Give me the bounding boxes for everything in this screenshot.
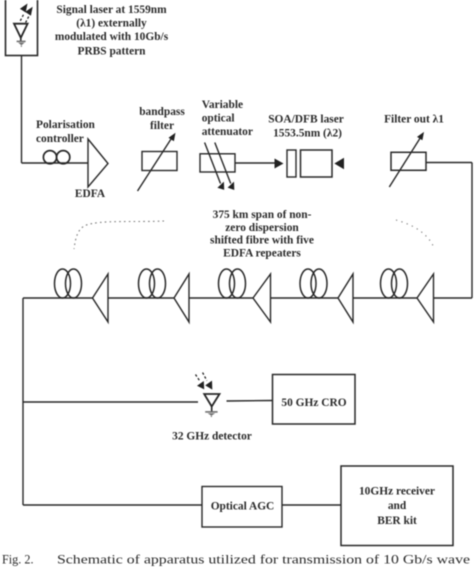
svg-text:Variable: Variable	[202, 99, 243, 111]
svg-text:Fig. 2.: Fig. 2.	[2, 553, 34, 567]
svg-text:375 km span of non-: 375 km span of non-	[213, 209, 312, 221]
svg-text:Schematic of apparatus utilize: Schematic of apparatus utilized for tran…	[57, 553, 470, 567]
svg-text:bandpass: bandpass	[139, 106, 185, 118]
svg-text:Optical AGC: Optical AGC	[211, 501, 275, 513]
svg-text:50 GHz CRO: 50 GHz CRO	[281, 397, 346, 409]
svg-text:32 GHz detector: 32 GHz detector	[172, 431, 252, 443]
svg-text:PRBS pattern: PRBS pattern	[77, 45, 146, 57]
svg-text:10GHz receiver: 10GHz receiver	[359, 486, 435, 498]
svg-text:controller: controller	[36, 133, 84, 145]
svg-text:zero dispersion: zero dispersion	[225, 222, 299, 234]
svg-text:(λ1) externally: (λ1) externally	[76, 18, 147, 30]
svg-text:and: and	[388, 500, 407, 512]
svg-text:optical: optical	[202, 113, 235, 125]
svg-text:1553.5nm (λ2): 1553.5nm (λ2)	[273, 127, 342, 139]
svg-text:EDFA: EDFA	[75, 188, 106, 200]
svg-text:modulated with 10Gb/s: modulated with 10Gb/s	[55, 31, 169, 43]
svg-text:EDFA repeaters: EDFA repeaters	[223, 247, 301, 259]
svg-text:Polarisation: Polarisation	[36, 119, 96, 131]
svg-text:filter: filter	[150, 120, 174, 132]
svg-text:shifted fibre with five: shifted fibre with five	[210, 235, 314, 247]
svg-text:BER kit: BER kit	[377, 515, 417, 527]
svg-text:Filter out λ1: Filter out λ1	[384, 114, 444, 126]
svg-text:SOA/DFB laser: SOA/DFB laser	[268, 114, 344, 126]
svg-text:Signal laser at 1559nm: Signal laser at 1559nm	[56, 4, 167, 16]
svg-text:attenuator: attenuator	[202, 126, 253, 138]
